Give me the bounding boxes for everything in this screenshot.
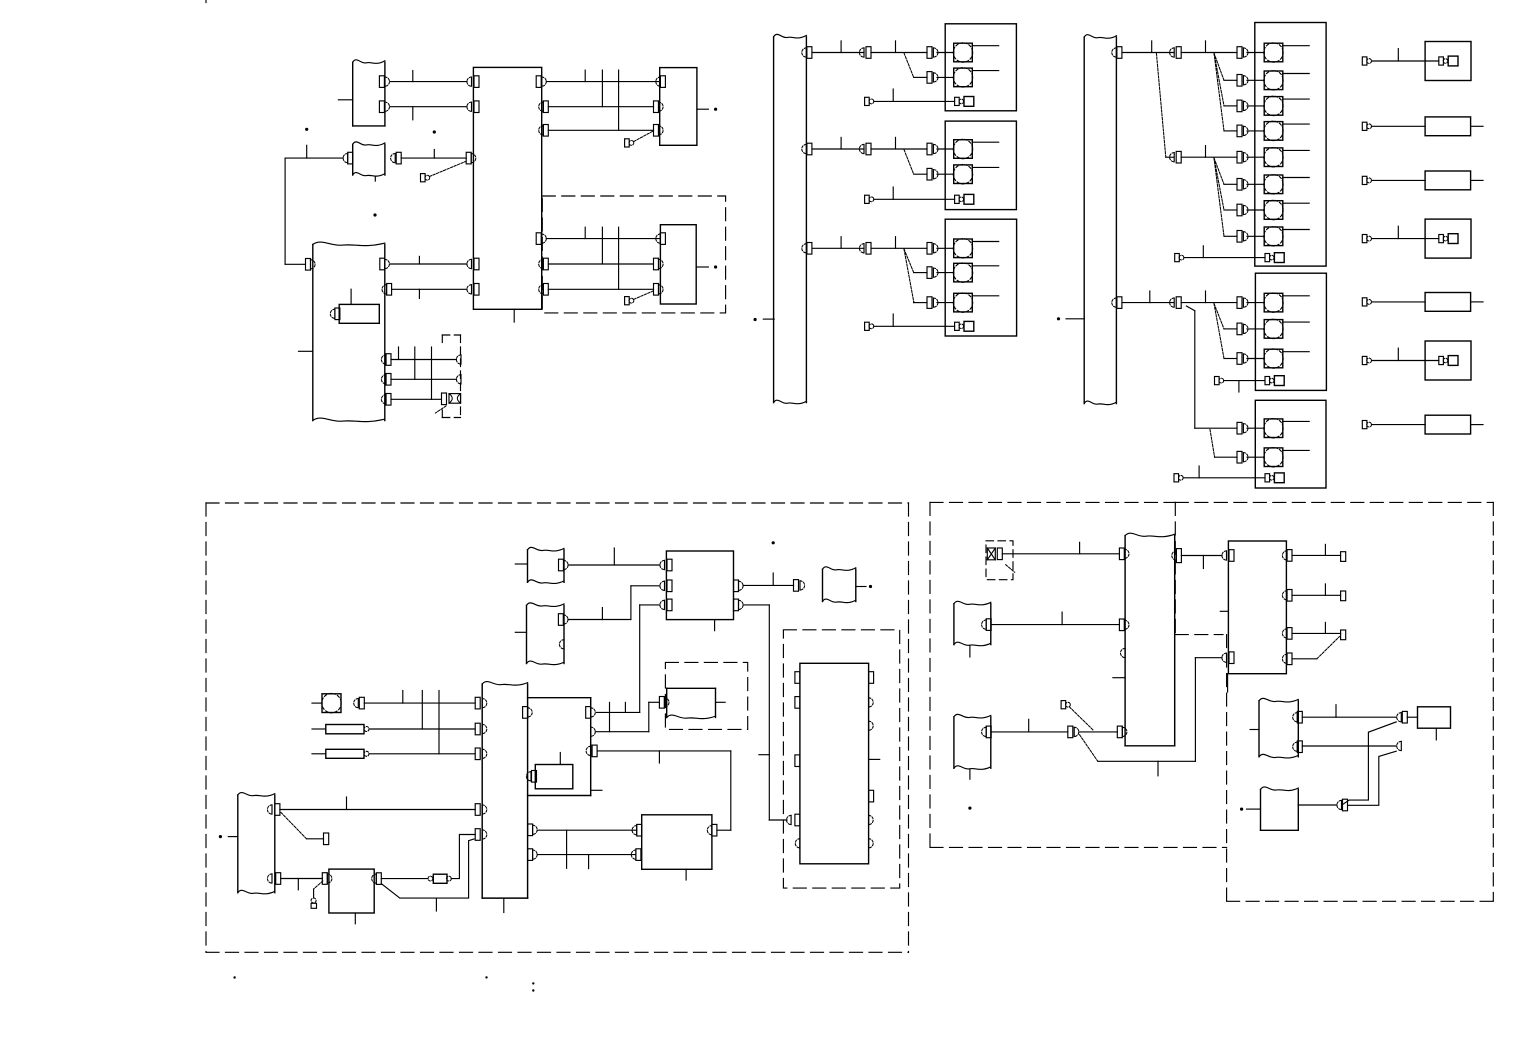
connector P right stub <box>856 586 866 588</box>
connector C bottom stub <box>374 177 376 182</box>
branch tick joining wires R4-R5 <box>601 227 603 264</box>
relay/fuse unit S (tall wavy-top box) <box>481 684 483 898</box>
right stub of K7 <box>1471 424 1483 426</box>
control unit CB (large box) <box>473 67 541 309</box>
fan branch to J2 row 2 <box>1214 304 1224 329</box>
vertical branch wire to box J3 <box>1194 311 1196 429</box>
control unit bottom stub <box>513 309 515 322</box>
lamp J3-1 <box>1264 419 1283 438</box>
unit Q pin R5 half connector <box>869 815 874 824</box>
box AC pin R3 <box>1282 629 1287 638</box>
tick on wire AB-AC <box>1202 556 1204 569</box>
wire into lamp J3-2 <box>1247 456 1264 458</box>
inline pair AK <box>1337 800 1342 809</box>
wire into box X right pin <box>717 829 731 831</box>
ground lead connector J3 <box>1174 474 1179 482</box>
wire Y-R2 to relay Z <box>281 878 323 880</box>
wire F2 trunk <box>812 148 864 150</box>
connector Y pin R1 <box>267 805 272 814</box>
relay box B2 right stub <box>696 266 708 268</box>
lamp J1-6 <box>1264 175 1283 194</box>
lamp G3-2 <box>954 263 973 282</box>
connector W (wavy-bottom box) <box>666 688 668 717</box>
ground wire J1 <box>1184 257 1265 259</box>
wire AG-R2 to half connector <box>1302 745 1396 747</box>
tick on ground wire J1 <box>1202 246 1204 258</box>
module N (box) <box>666 551 733 620</box>
lamp feed pair J1 row 8 <box>1237 231 1242 243</box>
module AI (small box) <box>1418 707 1451 728</box>
junction dot above module N right <box>772 541 775 544</box>
relay Z right pin <box>372 874 377 883</box>
ground wire G1 <box>874 100 955 102</box>
branch diagonal to lamp row 2 <box>904 53 914 77</box>
lamp feed pair J1 row 2 <box>1237 75 1242 87</box>
wire H1 trunk <box>1122 52 1174 54</box>
lamp G3-1 <box>954 239 973 258</box>
body ground lead connector K3 <box>1362 176 1367 184</box>
relay box B (top right) <box>660 68 697 146</box>
relay box B2 (in dashed enclosure) <box>660 225 696 304</box>
sensor AD bottom stub <box>969 646 971 657</box>
tick on that wire <box>306 145 308 158</box>
tick on wire M1-N <box>613 548 615 565</box>
connector M2 right pin <box>558 614 563 626</box>
wire to component K7 <box>1372 424 1426 426</box>
relay box B pin 1 <box>656 77 661 86</box>
lamp feed pair J2 row 2 <box>1237 323 1242 335</box>
fan branch to row 8 <box>1214 158 1224 236</box>
actuator AG pin R1 <box>1293 713 1298 722</box>
tick on wire K1 <box>1397 49 1399 61</box>
right stub of K5 <box>1471 301 1483 303</box>
connector D pin R1 <box>380 258 385 270</box>
ground terminal K1 <box>1439 57 1444 65</box>
unit S pin R2 <box>528 824 533 836</box>
wire to ground point K1 <box>1372 60 1439 62</box>
fan branch to row 4 <box>1214 53 1224 131</box>
lamp G1-1 <box>954 43 973 62</box>
CB pin R1 <box>536 76 541 88</box>
connector M1 left stub <box>515 563 527 565</box>
fuse box U (attached right of unit S) <box>528 697 591 699</box>
strip F left stub <box>763 318 774 320</box>
row 5 continuation <box>1181 156 1237 158</box>
lamp feed pair J1 row 3 <box>1237 100 1242 112</box>
tick on wire CB-R1 <box>584 70 586 82</box>
wire into lamp J1-8 <box>1247 235 1264 237</box>
wire fuse T1 to unit S <box>369 728 475 730</box>
fan branch to row 2 <box>1214 53 1224 80</box>
connector D pin R5 <box>381 395 386 404</box>
inline connector pair on wire F2 <box>859 144 864 153</box>
branch wire G3 row 2 <box>914 272 927 274</box>
actuator AG pin R2 <box>1293 742 1298 751</box>
tick on wire H1 <box>1151 41 1153 53</box>
wire to ground point K6 <box>1372 360 1439 362</box>
diagonal lead to relay box B pin 3 <box>634 131 653 141</box>
in-line connector M2 (wavy box) <box>526 605 528 663</box>
ticks on D-R3/R4/R5 wires <box>398 347 400 360</box>
tick on wire S-R3 <box>588 855 590 869</box>
junction box AB (tall wavy-top box) <box>1124 536 1126 746</box>
relay block E inside connector D <box>339 304 379 323</box>
relay box B right stub <box>697 108 709 110</box>
strip F pin 1 <box>802 48 807 57</box>
junction dot left of actuator AL <box>1240 808 1243 811</box>
wire CB-R2 to relay box B <box>548 106 653 108</box>
wire D-R5 <box>391 398 441 400</box>
tick on wire A2 <box>412 107 414 120</box>
actuator AG (wavy box) <box>1258 701 1260 757</box>
wire U-R2 to connector W <box>595 731 649 733</box>
tick on ground wire G2 <box>892 187 894 199</box>
junction dot left of connector Y <box>219 835 222 838</box>
relay V top stub <box>559 753 561 765</box>
tiny speck 1 <box>233 976 235 978</box>
component K5 (box) <box>1425 293 1471 312</box>
lamp feed pair G3 row 1 <box>927 243 932 255</box>
wire AC-R2 to terminal <box>1292 594 1341 596</box>
box X bottom stub <box>685 869 687 880</box>
wire F1 trunk <box>812 52 864 54</box>
electronic unit Q (tall box) <box>800 663 869 864</box>
stub on connector A left side <box>338 99 352 101</box>
ground terminal J2 <box>1265 377 1270 385</box>
box AC pin R2 <box>1282 591 1287 600</box>
ground lead connector J2 <box>1215 377 1220 385</box>
wire to component K3 <box>1372 179 1426 181</box>
body ground lead connector K1 <box>1362 57 1367 65</box>
unit Q pin R1 <box>869 672 874 684</box>
tick on wire M2-N <box>601 608 603 620</box>
diagonal lead below splice <box>436 406 447 413</box>
box AB pin L1 <box>1119 548 1124 560</box>
wire into lamp 1 <box>937 52 954 54</box>
ground point box K6 <box>1425 341 1471 380</box>
relay block E top stub <box>350 289 352 304</box>
wire F3 continuation <box>871 247 927 249</box>
branch wire G2 row 2 <box>914 173 927 175</box>
CB pin R6 <box>539 285 544 294</box>
ground lead connector G3 <box>865 322 870 330</box>
lamp J1-5 <box>1264 148 1283 167</box>
branch wire row 2 <box>914 76 927 78</box>
ground terminal J3 <box>1265 474 1270 482</box>
branch tick joining wires R1-R2 <box>601 70 603 107</box>
harness connector A (wavy box, top left) <box>352 62 354 126</box>
wire CB-R3 to relay box B <box>548 129 653 131</box>
strip F pin 2 <box>802 144 807 153</box>
inline pair AH <box>1397 713 1402 722</box>
vertical wire down to box X right pin <box>730 751 732 830</box>
box U bottom-right stub <box>591 789 602 791</box>
lamp feed pair J1 row 5 <box>1237 151 1242 163</box>
branch tick crossing to fuse wire 2 <box>438 691 440 754</box>
large dashed enclosure L (engine compartment) <box>206 502 909 504</box>
lamp J3-2 <box>1264 448 1283 467</box>
ground terminal G1 <box>955 97 960 105</box>
connector D left pin <box>306 259 311 271</box>
strip F pin 3 <box>802 244 807 253</box>
wire CB-R5 to relay box B2 <box>548 263 653 265</box>
wire Z to fuse ZF <box>381 878 428 880</box>
tick on wire AG-AH <box>1335 705 1337 718</box>
module N pin L2 <box>660 581 665 590</box>
wire into lamp J1-3 <box>1247 105 1264 107</box>
lamp J1-1 <box>1264 43 1283 62</box>
tick on wire K6 <box>1397 348 1399 360</box>
lamp J1-8 <box>1264 227 1283 246</box>
module N pin L3 <box>660 600 665 609</box>
box AC pin L2 <box>1222 653 1227 662</box>
unit Q pin L3 <box>795 755 800 767</box>
relay Z (box) <box>329 869 374 913</box>
branch diagonal to lamp row 2 of G2 <box>904 150 914 175</box>
wire Y-R1 to unit S pin L4 <box>280 809 475 811</box>
tick on wire A1 <box>412 71 414 82</box>
unit S pin L5 <box>475 829 480 841</box>
in-line mating pair after connector C <box>391 154 396 163</box>
ground terminal J1 <box>1265 254 1270 262</box>
fuse T2 (long rectangle) <box>312 753 326 755</box>
unit S pin R1 (into box U) <box>523 707 528 719</box>
connector D left stub <box>299 350 313 352</box>
lamp feed pair G2 row 1 <box>927 143 932 155</box>
connector M2 lower half connector <box>559 640 564 649</box>
branch tick joining wires R1-R3 <box>618 70 620 130</box>
junction dot 3 <box>373 213 376 216</box>
lamp feed pair G2 row 2 <box>927 168 932 180</box>
dashed enclosure R1 (left part) <box>930 501 1175 503</box>
relay Z ground circle <box>311 898 316 903</box>
relay Z ground lead <box>314 881 323 889</box>
wire into lamp G2-2 <box>937 173 954 175</box>
vertical branch from module N pin L3 <box>640 604 660 606</box>
unit Q pin L2 <box>795 697 800 709</box>
wire CB-R4 to relay box B2 <box>546 238 660 240</box>
small dashed box around splice AA <box>986 541 1013 580</box>
lamp G2-2 <box>954 165 973 184</box>
module N bottom stub <box>714 620 716 631</box>
harness route from pair AH down to connector AK <box>1343 722 1397 805</box>
in-line connector M1 (wavy box) <box>527 550 529 583</box>
tiny speck 3 <box>532 982 534 984</box>
unit S bottom stub <box>503 898 505 912</box>
branch tick joining wires R4-R6 <box>618 227 620 289</box>
long left vertical wire <box>284 158 286 264</box>
CB pin L1 <box>467 77 472 86</box>
wire N-R2 to dashed unit Q <box>743 604 769 606</box>
tick on wire AC-R2 <box>1324 584 1326 595</box>
wire into lamp J1-2 <box>1247 79 1264 81</box>
strip H pin 2 <box>1112 298 1117 307</box>
tick on wire F3 <box>840 237 842 249</box>
strip H pin 1 <box>1112 48 1117 57</box>
unit Q pin L1 <box>795 672 800 684</box>
connector W right stub <box>716 701 726 703</box>
vertical riser to control box AC pin L2 <box>1194 658 1196 762</box>
lamp housing box G2 <box>945 121 1016 210</box>
wire into lamp G3-3 <box>937 302 954 304</box>
tick on wire K4 <box>1397 226 1399 238</box>
lamp feed pair J1 row 6 <box>1237 179 1242 191</box>
component K7 (box) <box>1425 415 1471 434</box>
tick on branch wire <box>1157 761 1159 776</box>
wire fuse T2 to unit S <box>369 753 475 755</box>
box AB pin L4 <box>1117 726 1122 738</box>
wire U-R3 to box X <box>598 750 731 752</box>
ground wire G3 <box>874 325 955 327</box>
module N pin L1 <box>660 560 665 569</box>
lamp feed pair J3 row 1 <box>1237 422 1242 434</box>
wire AD to box AB pin L2 <box>991 624 1119 626</box>
lamp J2-3 <box>1264 349 1283 368</box>
wire A2 to control unit <box>390 106 467 108</box>
ground wire G2 <box>874 198 955 200</box>
diagonal tick at splice AA <box>1006 565 1015 573</box>
box X pin L1 <box>632 826 637 835</box>
junction dot right of relay box B <box>714 108 717 111</box>
branch diagonal to G3 row 2 <box>904 249 914 273</box>
return wire from S pin L5 down and left to relay Z <box>381 839 474 898</box>
sensor connector Y (wavy box bottom left) <box>237 795 239 893</box>
wire D-R3 <box>391 359 456 361</box>
ground point box K1 <box>1425 42 1471 81</box>
mating pair at unit Q pin <box>787 815 792 824</box>
ground wire J2 <box>1224 380 1265 382</box>
lamp G3-3 <box>954 293 973 312</box>
wire into control box AC pin L2 <box>1195 657 1222 659</box>
box U pin R3 <box>586 746 591 755</box>
connector M2 left stub <box>515 631 526 633</box>
unit Q pin R3 half connector <box>869 721 874 730</box>
wire AH to module AI <box>1407 716 1417 718</box>
wire N-R1 to connector P <box>743 584 793 586</box>
dashed enclosure DB2 (right unit) <box>783 630 899 888</box>
tick on wire Y-S <box>346 797 348 810</box>
tick on wire Y-Z <box>297 879 299 890</box>
wire from junction to connector C <box>285 157 343 159</box>
box AC bottom stub <box>1227 674 1229 692</box>
relay block E left pin <box>330 309 335 318</box>
control box AC <box>1228 541 1286 674</box>
relay box B2 pin 1 <box>656 234 661 243</box>
module N pin R1 <box>734 580 739 592</box>
box AB half connector L3 <box>1121 648 1126 657</box>
relay box B2 pin 3 <box>654 284 659 296</box>
CB pin L4 <box>467 259 472 268</box>
relay box B pin 2 <box>654 101 659 113</box>
inline connector pair on wire H1 <box>1170 48 1175 57</box>
wire S-R2 to box X pin 1 <box>537 829 637 831</box>
connector M1 right pin <box>559 559 564 571</box>
connector P (wavy box) <box>822 569 824 601</box>
tick on ground wire G3 <box>892 314 894 326</box>
junction dot 1 <box>305 128 308 131</box>
wire into lamp J2-3 <box>1247 358 1264 360</box>
inline pair to connector P <box>794 580 799 592</box>
tick on row 5 <box>1205 146 1207 158</box>
connector A pin 2 <box>379 101 384 113</box>
branch wire G3 row 3 <box>914 302 927 304</box>
wire D-R1 to CB pin L4 <box>390 263 467 265</box>
wire AE to inline pair AF <box>991 731 1068 733</box>
right stub of K2 <box>1471 125 1483 127</box>
lamp feed pair J1 row 7 <box>1237 204 1242 216</box>
wire F2 continuation <box>871 148 927 150</box>
lamp J2-2 <box>1264 320 1283 339</box>
diagonal lead from stub AF to wire <box>1070 707 1094 731</box>
lamp feed pair J1 row 4 <box>1237 125 1242 137</box>
lamp G2-1 <box>954 140 973 159</box>
tick on wire C-CB <box>433 150 435 159</box>
box AB left stub <box>1113 677 1125 679</box>
lamp housing box J2 <box>1255 273 1326 390</box>
sensor AE bottom stub <box>969 770 971 780</box>
terminal block rect <box>324 833 329 845</box>
lamp feed pair G3 row 2 <box>927 267 932 279</box>
CB pin R3 <box>539 126 544 135</box>
wire AF to box AB pin L4 <box>1079 731 1118 733</box>
tick on wire F2 <box>840 137 842 149</box>
actuator AL (wavy box) <box>1260 789 1262 830</box>
tick on wire F1 <box>840 41 842 53</box>
CB pin L2 <box>467 102 472 111</box>
branch diagonal to G3 row 3 <box>904 249 914 302</box>
diagnostic connector stub B2 <box>625 297 630 305</box>
wire S-R3 to box X pin 2 <box>537 854 635 856</box>
tick on return wire <box>435 898 437 911</box>
tick on wire R-S <box>402 691 404 704</box>
relay box B2 pin 2 <box>654 258 659 270</box>
wire D-R4 <box>391 378 456 380</box>
long branch diagonal to row 5 <box>1156 53 1165 157</box>
lamp G1-2 <box>954 68 973 87</box>
inline connector pair on row 5 <box>1170 153 1175 162</box>
tick on wire D-R2 <box>418 289 420 298</box>
connector W pin (mating pair) <box>659 697 664 709</box>
unit S pin L2 <box>475 723 480 735</box>
CB pin L5 <box>467 285 472 294</box>
tick on wire AE-AF <box>1028 719 1030 732</box>
tiny speck 4 <box>532 989 534 991</box>
wire into lamp J1-1 <box>1247 52 1264 54</box>
ground terminal G3 <box>955 322 960 330</box>
lead to terminal block <box>307 838 324 840</box>
diagnostic connector stub C <box>421 174 426 182</box>
junction dot 2 <box>433 130 436 133</box>
lamp feed pair G3 row 3 <box>927 297 932 309</box>
junction dot left of strip F <box>754 318 757 321</box>
connector D pin R2 <box>382 285 387 294</box>
box AB pin L2 <box>1119 619 1124 631</box>
wire H2 continuation <box>1181 302 1237 304</box>
in-line connector C (small wavy box) <box>352 144 354 175</box>
wire ZF up to unit S pin L5 <box>451 835 475 879</box>
component K2 (box) <box>1425 117 1471 136</box>
tick on wire U-R3 <box>658 751 660 763</box>
wire AC-R4 <box>1292 658 1317 660</box>
connector C left pin <box>343 154 348 163</box>
splice connector AA (rect with X) <box>987 548 995 560</box>
wire to component K2 <box>1372 125 1426 127</box>
lamp feed pair J1 row 1 <box>1237 47 1242 59</box>
body ground lead connector K4 <box>1362 235 1367 243</box>
lamp J1-3 <box>1264 97 1283 116</box>
unmated half connector on wire D-R3 <box>456 355 461 364</box>
relay box X <box>642 815 712 870</box>
